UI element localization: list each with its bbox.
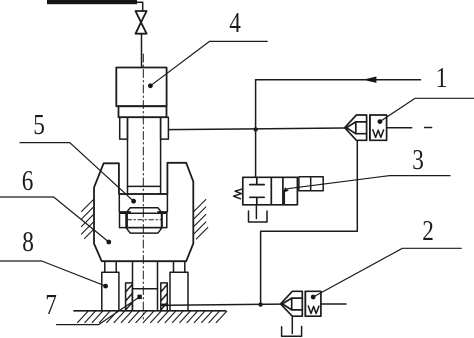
wire cylinder port to valve V1 — [168, 128, 344, 130]
valve V2 poppet pentagon — [281, 291, 321, 316]
port boss under right die block — [161, 304, 167, 307]
valve V1 poppet pentagon — [345, 115, 387, 140]
svg-text:7: 7 — [45, 289, 57, 321]
node junction bottom — [258, 302, 262, 306]
valve V2 seat channels — [292, 297, 303, 299]
flow arrow on top rail — [363, 77, 377, 83]
valve V3 cell divider right — [282, 177, 284, 205]
punch horizontal centerline — [127, 219, 161, 221]
piston box 5 — [119, 194, 167, 212]
valve V3 cell divider left — [270, 177, 272, 205]
tank symbol under V3 — [249, 211, 268, 222]
leg 8 left body — [102, 272, 119, 311]
leader label 3 — [288, 176, 451, 189]
valve V1 seat channels — [356, 121, 367, 123]
die block right (hatched) — [161, 283, 168, 311]
wire V2 outlet — [321, 303, 346, 305]
cylinder guide tab left — [120, 117, 128, 139]
punch side key left — [120, 213, 128, 227]
wall hatching right — [193, 200, 208, 240]
valve V3 pilot actuator boxes — [299, 177, 323, 191]
wire V1 outlet — [387, 127, 412, 129]
wire riser junction to top rail and down to valve 3 — [255, 80, 257, 178]
valve V3 blocked port bottom — [250, 196, 264, 198]
die block left (hatched) — [126, 283, 133, 311]
valve V1 poppet cone — [346, 122, 355, 134]
leg right neck — [174, 261, 185, 272]
ram joint line — [128, 185, 161, 187]
punch side key right — [162, 213, 167, 227]
wire V3 drain — [255, 205, 257, 219]
wire V1 outlet dash — [425, 127, 432, 129]
punch column right edge — [157, 261, 159, 311]
leg 8 left neck — [105, 261, 116, 272]
valve V3 flow path — [283, 191, 285, 205]
housing 6 outline — [94, 163, 193, 261]
svg-text:4: 4 — [229, 7, 241, 39]
valve V2 spring chamber — [305, 291, 321, 316]
cylinder U4 body — [116, 68, 166, 107]
wire die to valve V2 — [168, 304, 281, 305]
shutoff valve (bowtie) — [136, 11, 147, 34]
leader label 5 — [20, 143, 134, 202]
leg right body — [170, 272, 188, 311]
leader label 4 — [150, 41, 267, 85]
wire valve to cylinder — [141, 34, 143, 68]
cylinder guide tab right — [161, 117, 169, 139]
svg-text:6: 6 — [22, 165, 34, 197]
leader label 6 — [0, 197, 109, 242]
svg-text:8: 8 — [22, 226, 34, 258]
svg-text:5: 5 — [33, 109, 45, 141]
valve V3 spring — [234, 189, 243, 199]
ram right edge — [160, 117, 162, 194]
wire V1 bottom to valve V2 branch — [261, 140, 358, 304]
valve V2 seat double line — [304, 291, 306, 316]
punch tip line — [133, 288, 158, 290]
punch middle block — [126, 213, 162, 227]
valve V1 spring chamber — [370, 115, 387, 140]
node junction top — [254, 127, 258, 131]
wall hatching left — [82, 199, 95, 239]
leader label 1 — [380, 98, 474, 121]
svg-text:2: 2 — [422, 215, 434, 247]
leader label 8 — [0, 261, 106, 286]
valve V2 poppet cone — [282, 298, 291, 310]
valve V3 body — [243, 177, 323, 205]
ram left edge — [127, 117, 129, 194]
leader label 2 — [313, 248, 461, 297]
centerline — [142, 54, 144, 319]
supply manifold bar — [47, 0, 137, 4]
valve V2 spring — [308, 306, 319, 314]
valve V1 seat double line — [369, 115, 371, 140]
wire top rail — [256, 79, 421, 81]
tank symbol under V2 — [282, 326, 302, 336]
valve V3 blocked port top — [256, 177, 258, 184]
cylinder U4 flange band — [119, 106, 167, 117]
valve V1 spring — [373, 130, 384, 138]
punch column left edge — [132, 261, 134, 311]
wire bar to shutoff valve — [137, 2, 143, 11]
leader label 7 — [57, 297, 140, 325]
ground line — [74, 310, 226, 312]
punch lower flange — [126, 228, 162, 234]
svg-text:3: 3 — [412, 144, 424, 176]
svg-text:1: 1 — [436, 62, 448, 94]
punch upper flange — [126, 208, 162, 214]
wire V2 drain — [291, 316, 293, 334]
ground hatching — [78, 311, 227, 322]
